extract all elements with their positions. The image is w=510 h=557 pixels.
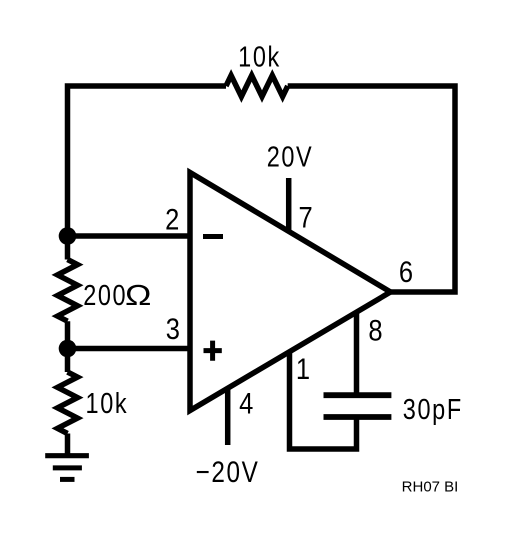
svg-text:200: 200 [83,279,127,312]
wire: pin 3 non-inverting input [68,346,191,352]
svg-text:RH07 BI: RH07 BI [402,479,459,496]
wire: pin 1 down and across to capacitor bottom [290,352,357,449]
op-amp plus symbol [204,341,222,361]
label 20V (pin 7 supply) [267,140,314,173]
capacitor C1 30pF plates [324,395,392,417]
svg-text:4: 4 [239,387,253,420]
pin number 2 [165,203,179,236]
pin number 7 [299,201,313,234]
pin number 8 [368,313,382,346]
pin number 1 [296,352,310,385]
label RH07 BI [402,479,459,496]
pin number 6 [399,255,413,288]
wire: pin 2 inverting input [68,233,191,239]
ground symbol [45,456,89,480]
svg-text:20V: 20V [267,140,314,173]
label 200 ohm [83,279,151,312]
resistor R2 10k zigzag [58,372,78,434]
svg-text:1: 1 [296,352,310,385]
svg-text:8: 8 [368,313,382,346]
svg-text:10k: 10k [238,40,281,73]
resistor R1 200ohm zigzag [58,260,78,322]
svg-text:Ω: Ω [125,279,151,311]
wire: top feedback left segment + left rail top [68,86,227,260]
resistor 10k feedback zigzag [226,75,288,96]
label 10k (feedback resistor) [238,40,281,73]
label -20V (pin 4 supply) [196,455,260,489]
label 30pF (capacitor) [403,393,463,426]
pin number 3 [166,312,180,345]
node B junction dot (pin 3 / divider) [59,340,77,358]
svg-text:10k: 10k [86,387,129,420]
wire: top feedback right segment, right vertical, output pin 6 [288,86,455,292]
wire: pin 8 down to capacitor [354,313,360,395]
op-amp U1 triangle [190,173,391,411]
svg-text:2: 2 [165,203,179,236]
wire: pin 7 supply [286,178,292,233]
pin number 4 [239,387,253,420]
wire: pin 4 supply [225,388,231,445]
wire: left rail between resistors [65,321,71,372]
label 10k (lower resistor) [86,387,129,420]
node A junction dot (pin 2 / feedback) [59,227,77,245]
svg-text:7: 7 [299,201,313,234]
svg-text:−20V: −20V [196,455,260,489]
svg-text:3: 3 [166,312,180,345]
svg-text:6: 6 [399,255,413,288]
op-amp minus symbol [203,234,223,239]
wire: left rail to ground [65,434,71,456]
svg-text:30pF: 30pF [403,393,463,426]
